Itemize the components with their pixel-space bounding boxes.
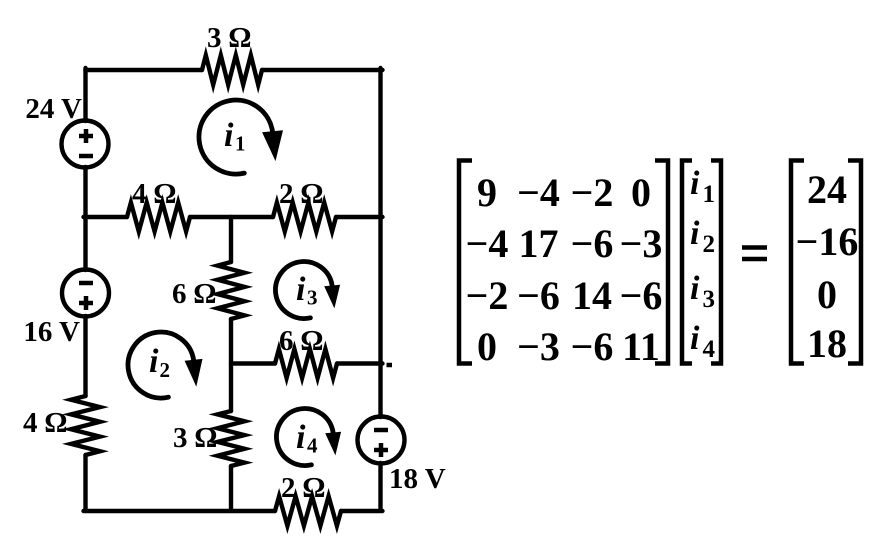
svg-text:2: 2 [703,231,716,258]
svg-text:2: 2 [160,358,171,382]
mesh loop i4 arrowhead [325,432,341,456]
svg-text:1: 1 [235,132,246,156]
resistor R3 4ohm middle [127,203,190,232]
resistor R7 6ohm horizontal [275,349,337,378]
svg-text:−3: −3 [620,221,663,266]
wire 6ohm branch right segment [337,361,383,365]
wire left vertical between sources [83,167,87,270]
V3 plus sign [374,443,388,457]
svg-text:2 Ω: 2 Ω [281,472,325,504]
wire left vertical bottom [83,455,87,513]
svg-text:3 Ω: 3 Ω [173,422,217,454]
svg-text:4: 4 [703,336,716,363]
matrix A left bracket [459,161,472,364]
resistor R5 6ohm vertical [218,262,245,319]
svg-text:−2: −2 [571,170,614,215]
svg-text:0: 0 [477,324,497,369]
vector i right bracket [711,161,721,364]
mesh loop i2 arrowhead [185,359,203,387]
mesh loop i1 arc [199,100,273,174]
svg-text:−6: −6 [620,273,663,318]
V3 minus sign [374,428,388,433]
V2 minus sign [79,281,93,286]
svg-text:−2: −2 [466,273,509,318]
svg-text:4 Ω: 4 Ω [132,178,176,210]
resistor R6 3ohm vertical [218,411,245,466]
V2 plus sign [79,296,93,310]
vector i left bracket [682,161,692,364]
wire middle vertical bottom segment [229,466,233,513]
svg-text:4 Ω: 4 Ω [23,407,67,439]
svg-text:−6: −6 [517,273,560,318]
matrix A right bracket [655,161,668,364]
voltage source V2 16V circle [62,270,109,317]
mesh loop i3 arc [275,262,332,319]
svg-text:−6: −6 [571,221,614,266]
resistor R2 4ohm left vertical [71,396,100,455]
svg-text:−4: −4 [517,170,560,215]
wire middle horizontal center segment [190,215,273,219]
svg-text:−6: −6 [571,324,614,369]
svg-text:−4: −4 [466,221,509,266]
vector b left bracket [791,161,804,364]
wire top horizontal right segment [262,68,383,72]
wire middle horizontal left segment [84,215,128,219]
svg-text:18: 18 [807,321,847,366]
svg-text:16 V: 16 V [23,316,80,348]
svg-text:0: 0 [817,272,837,317]
svg-text:i: i [690,320,700,357]
svg-text:1: 1 [703,181,716,208]
svg-text:i: i [296,419,306,456]
svg-text:3: 3 [703,286,716,313]
resistor R1 3ohm top [202,55,262,85]
V1 plus sign [79,129,93,143]
svg-text:−3: −3 [517,324,560,369]
svg-text:2 Ω: 2 Ω [279,178,323,210]
svg-text:6 Ω: 6 Ω [279,325,323,357]
svg-text:i: i [224,117,234,154]
wire left vertical top [83,68,87,121]
voltage source V3 18V circle [358,417,405,464]
wire bottom horizontal right segment [341,509,383,513]
wire left vertical below 16V [83,316,87,396]
svg-text:3: 3 [307,286,318,310]
equals sign [742,248,767,260]
svg-text:11: 11 [622,324,660,369]
svg-text:4: 4 [307,434,318,458]
resistor R8 2ohm bottom [275,496,341,526]
wire bottom horizontal left segment [84,509,276,513]
mesh loop i1 arrowhead [262,130,283,161]
wire middle vertical upper segment [229,217,233,262]
svg-text:i: i [690,165,700,202]
wire right vertical lower [378,463,382,513]
svg-text:i: i [690,215,700,252]
svg-text:i: i [690,270,700,307]
resistor R4 2ohm middle [273,203,336,232]
svg-text:i: i [296,271,306,308]
wire right vertical upper [378,68,382,417]
svg-text:3 Ω: 3 Ω [207,22,251,54]
svg-text:i: i [149,343,159,380]
mesh loop i3 arrowhead [324,285,340,309]
svg-text:18 V: 18 V [389,463,446,495]
mesh loop i2 arc [128,332,194,398]
svg-text:9: 9 [477,170,497,215]
svg-text:6 Ω: 6 Ω [172,278,216,310]
wire middle horizontal right segment [336,215,383,219]
svg-text:24 V: 24 V [25,93,82,125]
svg-text:14: 14 [572,273,612,318]
V1 minus sign [79,154,93,159]
svg-text:17: 17 [519,221,559,266]
svg-text:0: 0 [631,170,651,215]
wire top horizontal left segment [86,68,203,72]
voltage source V1 24V circle [62,121,109,168]
mesh loop i4 arc [276,409,333,466]
junction tick at right wire [387,363,393,368]
svg-text:24: 24 [807,167,847,212]
svg-text:−16: −16 [796,219,859,264]
wire middle vertical center segment [229,319,233,411]
vector b right bracket [848,161,861,364]
wire 6ohm branch left segment [231,361,275,365]
